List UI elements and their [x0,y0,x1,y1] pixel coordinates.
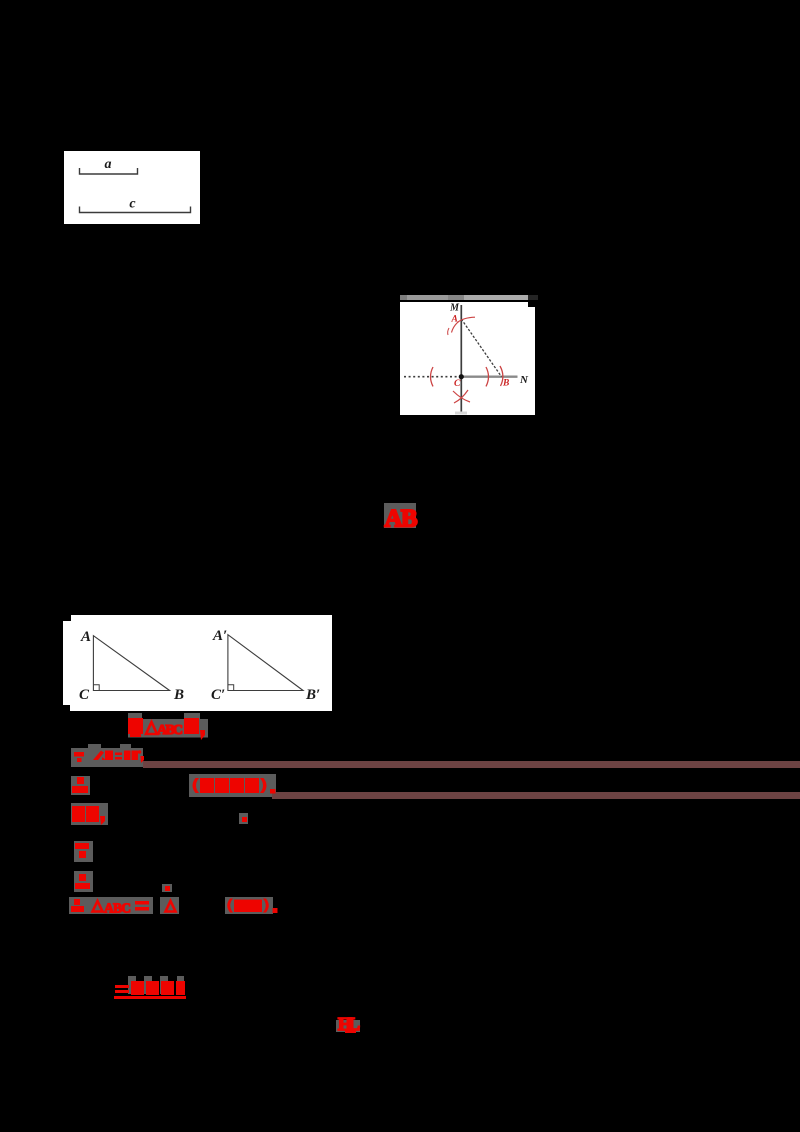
white figure box: two triangles [63,615,332,711]
red (Pythagorean theorem). [190,775,280,799]
svg-text:ABC: ABC [157,723,183,738]
triangle ABC [93,636,169,691]
proof line 2 gray highlight [71,748,143,768]
red congruent sign [135,901,149,911]
proof line 2 red: because angle C = 90 deg, [68,746,164,770]
line 6 trailing period [162,884,172,892]
red triangle 2 [166,901,176,912]
red = 90 deg [115,753,122,760]
proof line 3: therefore ... (Pythagorean theorem). [71,776,90,795]
triangle A'B'C' [228,635,303,691]
red therefore sign [71,776,91,796]
red char 中 [184,718,199,734]
proof line 7: therefore triangle ABC congruent triangle (SSS). [69,897,153,914]
arc right of C inner [486,367,489,386]
svg-text:ABC: ABC [104,901,131,916]
svg-text:N: N [519,374,529,386]
white figure box: segments a and c [64,151,200,224]
gray highlight line 3 [189,774,276,797]
HL answer [336,1020,360,1032]
segment c [80,207,191,213]
svg-text:B: B [173,687,184,703]
svg-text:a: a [105,157,112,172]
svg-text:AB: AB [385,506,418,531]
svg-text:B′: B′ [305,687,320,703]
right angle at C' [228,685,234,691]
arc at B [500,366,503,386]
gray tabs [128,976,136,994]
red therefore small [71,899,84,912]
arc at A [452,317,476,332]
red (SSS) [227,899,233,913]
red comma [200,730,205,740]
red triangle [146,722,157,734]
svg-text:A′: A′ [212,628,227,644]
svg-text:C′: C′ [211,687,225,703]
red because sign [74,752,84,762]
scrollbar above construction figure [400,295,538,300]
black notch top-right [528,302,535,307]
line CN horizontal [461,375,517,377]
construction figure white box [400,302,535,415]
red period [273,908,278,913]
gray tab over 90 [120,744,131,750]
proof line 5: because [74,841,93,862]
gray highlight box with red AB [384,503,416,528]
maroon bar 1 [143,761,800,769]
red triangle [93,901,103,912]
red congruent-ish sign [115,985,129,993]
maroon bar 2 [272,792,800,800]
line MC vertical [460,305,462,413]
red char 在 [128,718,143,737]
proof line 1: 在 triangle ABC 中, [120,703,220,743]
gray strip [128,719,208,738]
segment AB dashed [461,319,501,377]
red underline [114,996,186,999]
svg-text:M: M [449,302,460,313]
bottom smudge [455,411,467,414]
arc left of C [431,367,434,386]
cross arcs below C [453,391,470,402]
line 4 trailing period [239,813,248,824]
svg-text:C: C [79,687,90,703]
black notch top-left [63,615,71,621]
svg-text:A: A [80,629,91,645]
svg-text:C: C [454,379,461,389]
svg-text:c: c [129,197,136,212]
congruent answer text with underline [110,974,192,1002]
proof line 4: similarly, [71,803,108,825]
gray tab over 在 [128,713,142,737]
red cjk blobs [131,981,144,995]
red AB text [381,503,421,530]
proof line 6: therefore [74,871,93,892]
gray tab over angle glyph [88,744,101,750]
right angle at C [93,685,99,691]
red angle C [93,751,106,761]
gray tab over 中 [184,713,200,737]
black notch bottom-left [63,705,70,711]
HL underline tick [345,1030,356,1033]
point C dot [459,374,464,379]
segment a [80,168,138,174]
dotted line left of C [404,375,461,377]
